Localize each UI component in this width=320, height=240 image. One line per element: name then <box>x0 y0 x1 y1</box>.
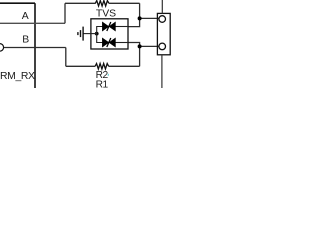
TVS diode pair row 1 <box>102 22 115 31</box>
wire net B from port <box>4 47 66 49</box>
wire bend down to dot1 <box>139 3 141 18</box>
wire B net to connector <box>140 45 159 47</box>
svg-text:A: A <box>22 11 29 22</box>
TVS box <box>91 19 128 49</box>
junction dot2 net B <box>138 44 142 48</box>
ground wire <box>83 33 91 35</box>
wire R2 left segment <box>66 65 95 67</box>
cyan artifact <box>108 74 109 76</box>
wire connector bottom stub <box>161 55 163 88</box>
TVS internal wires <box>91 27 128 43</box>
wire top to R1 <box>65 2 96 4</box>
ground bar 1 <box>82 27 84 41</box>
connector J? box <box>157 13 170 54</box>
svg-text:R1: R1 <box>96 79 109 88</box>
wire dot2 down to R2 row <box>139 46 141 66</box>
wire A riser <box>64 3 66 23</box>
TVS diode pair row 2 <box>102 38 115 47</box>
svg-text:TVS: TVS <box>96 9 116 20</box>
TVS internal node dot <box>95 32 99 36</box>
svg-text:TERM_RX: TERM_RX <box>0 71 35 82</box>
wire A net to connector <box>140 17 159 19</box>
wire R1 to bend <box>109 2 140 4</box>
ground bar 3 <box>77 32 79 35</box>
resistor R2 zigzag <box>95 64 109 70</box>
wire B riser <box>65 48 67 67</box>
wire TVS upper pin L <box>128 18 140 26</box>
wire connector top stub <box>161 0 163 13</box>
port circle net B at left edge <box>0 44 4 52</box>
wire R2 right segment <box>109 65 140 67</box>
ground bar 2 <box>80 30 82 37</box>
wire TVS lower pin L <box>128 43 140 47</box>
connector pin 2 circle <box>159 43 166 50</box>
connector pin 1 circle <box>159 16 166 23</box>
block U? left edge <box>0 3 35 88</box>
resistor R1 zigzag <box>95 1 109 6</box>
wire net A horizontal <box>0 22 65 24</box>
junction dot1 net A <box>138 16 142 20</box>
svg-text:B: B <box>22 35 29 46</box>
